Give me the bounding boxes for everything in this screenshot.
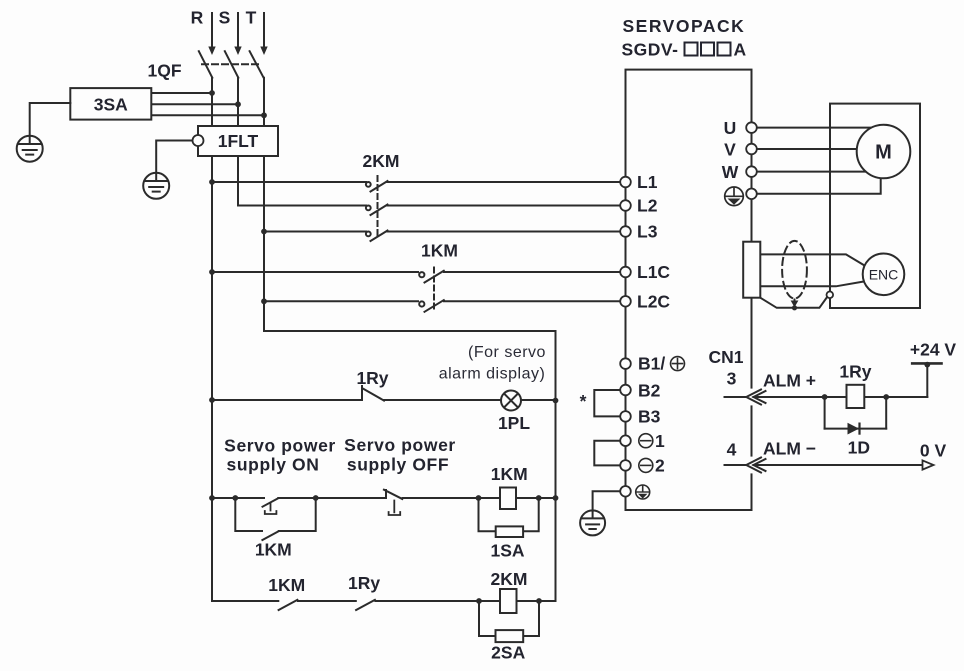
pushbutton ON blade — [263, 498, 279, 506]
coil 2KM — [500, 589, 517, 613]
svg-text:3: 3 — [727, 369, 737, 389]
svg-text:L1C: L1C — [637, 262, 670, 282]
svg-text:1KM: 1KM — [255, 540, 292, 560]
svg-text:supply ON: supply ON — [227, 455, 320, 475]
wire T phase to right rail — [264, 330, 556, 332]
svg-text:ALM −: ALM − — [763, 439, 816, 459]
CN1 pin 3 stub — [725, 396, 747, 398]
lamp row wire — [212, 399, 362, 401]
svg-text:U: U — [724, 118, 737, 138]
svg-text:1: 1 — [655, 431, 665, 451]
svg-text:A: A — [734, 40, 747, 60]
wire 3SA to S — [151, 103, 238, 105]
contactor 2KM pole 3 — [366, 231, 620, 242]
node R — [0, 0, 1, 1]
wire +24V riser — [926, 363, 928, 397]
svg-text:L2C: L2C — [637, 291, 670, 311]
contactor 1KM linkage dashed — [433, 268, 435, 310]
diode 1D — [848, 423, 860, 435]
bottom row wire 4 — [517, 600, 556, 602]
bottom row wire 2 — [298, 600, 356, 602]
svg-text:1KM: 1KM — [491, 464, 528, 484]
relay coil 1Ry — [847, 385, 865, 408]
minus2 symbol — [639, 458, 653, 472]
wire V to motor — [757, 148, 858, 150]
resistor 1SA — [496, 526, 523, 537]
ON row wire 2 — [278, 497, 386, 499]
coil 1KM — [500, 488, 516, 510]
ON row wire 4 — [516, 497, 556, 499]
svg-text:L2: L2 — [637, 196, 658, 216]
wire left rail (R phase down) — [211, 156, 213, 601]
svg-text:1SA: 1SA — [490, 541, 524, 561]
lamp 1PL — [501, 391, 521, 411]
wire B2-B3 jumper — [594, 390, 620, 416]
breaker 1QF pole T blade — [250, 51, 264, 77]
arrowheads R S T — [208, 47, 215, 56]
ground (3SA) — [17, 136, 43, 162]
wire ALM+ to relay — [754, 396, 928, 398]
edge gap patches for CN1 pins — [749, 389, 755, 406]
diode branch right — [885, 397, 887, 429]
resistor 2SA — [496, 630, 524, 642]
right rail — [555, 331, 557, 601]
wire S phase to L2 row — [238, 156, 366, 206]
1KM aux branch right — [279, 498, 316, 531]
shield drain wire — [760, 296, 828, 308]
contact 1Ry bottom blade — [356, 600, 375, 610]
contact 1KM aux blade — [262, 531, 278, 540]
svg-text:1Ry: 1Ry — [356, 368, 388, 388]
contactor 1KM pole 1 — [419, 271, 620, 283]
svg-text:alarm display): alarm display) — [439, 366, 546, 383]
filter 1FLT — [198, 126, 278, 156]
contact 1KM bottom blade — [279, 600, 298, 610]
2SA branch — [479, 601, 496, 636]
svg-text:1PL: 1PL — [498, 413, 530, 433]
CN1 pin 4 stub — [725, 464, 747, 466]
svg-text:2KM: 2KM — [363, 151, 400, 171]
0V open arrow — [923, 460, 934, 469]
svg-text:B2: B2 — [638, 380, 661, 400]
motor M — [857, 125, 911, 179]
shield drain circle on motor box — [827, 292, 834, 299]
svg-text:ALM +: ALM + — [763, 371, 816, 391]
svg-text:L1: L1 — [637, 172, 658, 192]
svg-text:L3: L3 — [637, 222, 658, 242]
wire T to filter — [263, 78, 265, 126]
svg-text:1QF: 1QF — [147, 61, 181, 81]
encoder cable bottom — [760, 282, 863, 287]
contactor 2KM pole 1 — [366, 181, 620, 192]
svg-text:B3: B3 — [638, 407, 661, 427]
B1/plus symbol — [671, 357, 685, 371]
servopack box — [626, 70, 752, 510]
svg-text:0 V: 0 V — [920, 441, 947, 461]
svg-text:CN1: CN1 — [708, 347, 743, 367]
svg-text:Servo power: Servo power — [224, 436, 336, 456]
wire U to motor — [757, 127, 872, 129]
wire W to motor — [757, 171, 866, 173]
bottom row wire 3 — [375, 600, 500, 602]
breaker 1QF pole S blade — [225, 51, 239, 77]
wire S incoming — [237, 13, 239, 48]
terminal circles (right edge U V W gnd) — [746, 122, 757, 133]
ON row wire 3 — [403, 497, 500, 499]
shield arrow — [791, 299, 799, 311]
svg-text:W: W — [722, 162, 739, 182]
pushbutton OFF actuator — [389, 501, 401, 516]
encoder connector — [743, 242, 760, 298]
svg-text:1KM: 1KM — [268, 575, 305, 595]
breaker 1QF linkage dashed — [202, 63, 259, 65]
wire L1C row left — [212, 271, 418, 273]
svg-text:T: T — [246, 8, 257, 28]
motor enclosure box — [830, 104, 920, 308]
wire motor ground — [757, 179, 881, 194]
svg-text:2: 2 — [655, 456, 665, 476]
contactor 1KM pole 2 — [419, 300, 620, 312]
wire L3 row left — [264, 231, 366, 233]
svg-text:4: 4 — [727, 440, 737, 460]
diode branch wire — [825, 428, 887, 430]
svg-text:SGDV-: SGDV- — [622, 40, 679, 60]
wire T phase down — [263, 156, 265, 331]
svg-text:SERVOPACK: SERVOPACK — [623, 16, 746, 36]
wire 3SA to T — [151, 114, 264, 116]
pushbutton ON actuator — [265, 503, 277, 514]
ground (servopack) — [580, 510, 605, 535]
diode branch left — [824, 397, 826, 429]
motor terminal earth symbol — [725, 187, 744, 206]
2SA branch right — [523, 601, 539, 636]
svg-text:1D: 1D — [848, 438, 870, 458]
1SA branch right — [523, 498, 539, 531]
contactor 2KM pole 2 — [366, 205, 620, 216]
svg-text:ENC: ENC — [869, 267, 899, 283]
svg-text:1Ry: 1Ry — [348, 573, 380, 593]
wire T incoming — [263, 13, 265, 48]
svg-text:2KM: 2KM — [491, 569, 528, 589]
cable shield dashed — [782, 241, 807, 299]
1SA branch — [479, 498, 496, 531]
wire S to filter — [237, 78, 239, 126]
ground (1FLT) — [143, 173, 169, 199]
wire R to filter — [211, 78, 213, 126]
svg-text:M: M — [875, 142, 892, 164]
svg-text:*: * — [580, 391, 587, 411]
encoder ENC — [863, 253, 905, 295]
wire ALM- to 0V — [754, 464, 925, 466]
filter circle — [193, 135, 204, 146]
+24V supply bar — [912, 362, 941, 365]
wire L1 row left — [212, 181, 366, 183]
svg-text:supply OFF: supply OFF — [347, 455, 449, 475]
minus1 symbol — [639, 434, 653, 448]
breaker 1QF pole R blade — [199, 51, 213, 77]
wire 3SA to ground — [30, 103, 71, 136]
svg-text:1Ry: 1Ry — [839, 362, 871, 382]
ON row wire — [212, 497, 264, 499]
lamp row wire right — [384, 399, 556, 401]
relay contact 1Ry blade — [363, 389, 384, 401]
pushbutton OFF blade — [384, 490, 402, 499]
svg-text:1KM: 1KM — [421, 241, 458, 261]
terminal circles (servopack left edge) — [193, 122, 834, 496]
svg-text:V: V — [724, 140, 736, 160]
wire R incoming — [211, 13, 213, 48]
wire 1FLT to ground — [156, 141, 192, 173]
1KM aux branch — [235, 498, 262, 531]
relay contact 1Ry riser — [361, 386, 363, 400]
svg-text:B1/: B1/ — [638, 354, 665, 374]
wire 3SA to R — [151, 92, 212, 94]
CN1 pin 4 chevron — [746, 458, 761, 473]
encoder cable top — [760, 254, 864, 265]
svg-text:S: S — [219, 8, 231, 28]
wire L2C row left — [264, 300, 418, 302]
CN1 pin 3 chevron — [746, 390, 761, 405]
bottom row wire — [212, 600, 278, 602]
wire servopack ground — [593, 491, 620, 511]
label earth symbol (bottom terminal) — [636, 485, 650, 499]
contactor 2KM linkage dashed — [377, 176, 379, 239]
surge absorber 3SA — [70, 88, 151, 120]
svg-text:R: R — [191, 8, 204, 28]
pushbutton OFF riser — [385, 490, 387, 498]
svg-text:(For servo: (For servo — [468, 344, 546, 361]
svg-text:+24 V: +24 V — [910, 340, 957, 360]
svg-text:2SA: 2SA — [491, 643, 525, 663]
wire minus1-minus2 jumper — [594, 441, 620, 466]
svg-text:Servo power: Servo power — [344, 435, 456, 455]
svg-text:1FLT: 1FLT — [218, 131, 259, 151]
svg-text:3SA: 3SA — [94, 95, 128, 115]
